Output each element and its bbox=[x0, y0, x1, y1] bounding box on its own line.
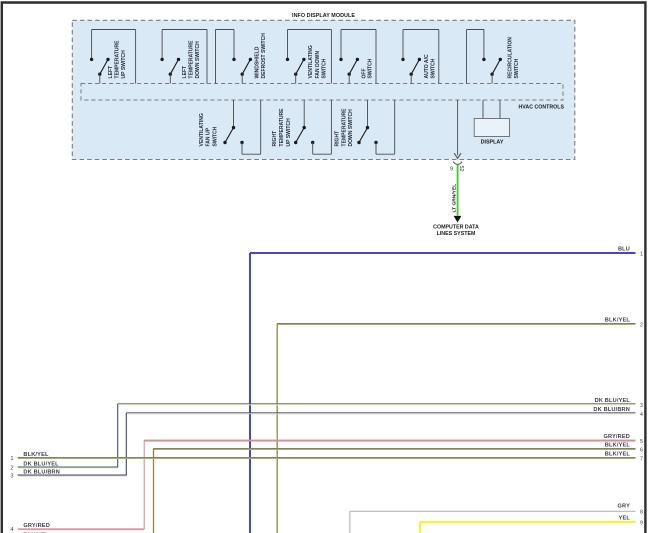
svg-text:BLK/YEL: BLK/YEL bbox=[605, 452, 631, 458]
label BLK/YEL (right, pin 7) bbox=[605, 452, 631, 458]
label: HVAC CONTROLS bbox=[518, 105, 564, 111]
svg-text:4: 4 bbox=[640, 412, 643, 418]
pin 4 (left) bbox=[10, 527, 13, 533]
switch: recirculation switch bbox=[467, 30, 521, 84]
switch: right temperature up switch bbox=[272, 100, 331, 154]
svg-text:YEL: YEL bbox=[619, 516, 631, 522]
hvac controls bus box bbox=[81, 84, 563, 101]
connector pin 9 symbol (half circle) bbox=[453, 162, 462, 165]
svg-text:TEMPERATURE: TEMPERATURE bbox=[279, 108, 285, 147]
switch: ventilating fan up switch bbox=[199, 100, 261, 154]
svg-text:HVAC CONTROLS: HVAC CONTROLS bbox=[518, 105, 564, 111]
svg-text:SWITCH: SWITCH bbox=[213, 126, 219, 146]
svg-text:BLU: BLU bbox=[618, 247, 630, 253]
svg-text:COMPUTER DATA: COMPUTER DATA bbox=[433, 225, 479, 231]
svg-text:TEMPERATURE: TEMPERATURE bbox=[189, 40, 195, 79]
pin 9 (right) bbox=[640, 520, 643, 526]
svg-text:9: 9 bbox=[450, 167, 453, 173]
svg-text:DK BLU/YEL: DK BLU/YEL bbox=[595, 398, 631, 404]
display unit D1 bbox=[474, 100, 509, 146]
svg-text:DISPLAY: DISPLAY bbox=[481, 140, 504, 146]
switch: right temperature down switch bbox=[335, 100, 395, 154]
svg-text:BLK/YEL: BLK/YEL bbox=[605, 443, 631, 449]
svg-text:DK BLU/BRN: DK BLU/BRN bbox=[23, 470, 60, 476]
switch: left temperature up switch bbox=[90, 30, 136, 84]
svg-text:RIGHT: RIGHT bbox=[335, 130, 341, 147]
svg-text:7: 7 bbox=[640, 457, 643, 463]
pin 2 (right) bbox=[640, 323, 643, 329]
info display module box bbox=[72, 20, 575, 159]
pin 9 number bbox=[450, 167, 453, 173]
pin 6 (right) bbox=[640, 448, 643, 454]
label DK BLU/BRN (right) bbox=[593, 407, 630, 413]
pin 3 (left) bbox=[10, 474, 13, 480]
label BLK/YEL bbox=[605, 318, 631, 324]
svg-text:BLK/YEL: BLK/YEL bbox=[605, 318, 631, 324]
svg-text:SWITCH: SWITCH bbox=[368, 58, 374, 78]
svg-text:5: 5 bbox=[640, 439, 643, 445]
switch: auto a/c switch bbox=[401, 30, 439, 84]
wire W4: DK BLU/BRN (pin 4 right, pin 3 left) bbox=[18, 413, 636, 476]
pin 4 (right) bbox=[640, 412, 643, 418]
label: COMPUTER DATA LINES SYSTEM bbox=[433, 225, 479, 238]
switch: windshield defrost switch bbox=[216, 30, 268, 84]
wire: LT GRN/YEL (green) down to computer data lines system bbox=[457, 165, 459, 216]
svg-text:UP SWITCH: UP SWITCH bbox=[121, 50, 127, 79]
svg-text:DOWN SWITCH: DOWN SWITCH bbox=[348, 109, 354, 147]
wire W9: YEL (pin 9) bbox=[420, 522, 636, 533]
svg-text:LT GRN/YEL: LT GRN/YEL bbox=[451, 184, 457, 213]
svg-text:FAN UP: FAN UP bbox=[206, 127, 212, 146]
svg-text:AUTO A/C: AUTO A/C bbox=[424, 54, 430, 78]
svg-text:FAN DOWN: FAN DOWN bbox=[315, 51, 321, 79]
svg-text:VENTILATING: VENTILATING bbox=[199, 113, 205, 146]
pin 1 (right) bbox=[640, 252, 643, 258]
svg-text:3: 3 bbox=[640, 403, 643, 409]
label DK BLU/YEL (left pin 2) bbox=[23, 461, 59, 467]
label YEL bbox=[619, 516, 631, 522]
switch: off switch bbox=[339, 30, 376, 84]
svg-text:LINES SYSTEM: LINES SYSTEM bbox=[437, 231, 476, 237]
svg-text:BLK/YEL: BLK/YEL bbox=[23, 452, 49, 458]
pin 5 (right) bbox=[640, 439, 643, 445]
label GRY/RED (left pin 4) bbox=[23, 523, 50, 529]
label: INFO DISPLAY MODULE bbox=[292, 13, 355, 19]
svg-text:2: 2 bbox=[10, 466, 13, 472]
svg-text:UP SWITCH: UP SWITCH bbox=[286, 118, 292, 147]
svg-text:9: 9 bbox=[640, 520, 643, 526]
svg-text:8: 8 bbox=[640, 510, 643, 516]
svg-text:52: 52 bbox=[458, 166, 464, 172]
wire W7: BLK/YEL (pin 7 right, pin 1 left) bbox=[18, 458, 636, 459]
label GRY bbox=[618, 504, 631, 510]
svg-text:DK BLU/BRN: DK BLU/BRN bbox=[593, 407, 630, 413]
internal output wire with arrow to module edge bbox=[454, 100, 461, 158]
svg-text:DOWN SWITCH: DOWN SWITCH bbox=[195, 41, 201, 79]
svg-text:WINDSHIELD: WINDSHIELD bbox=[254, 46, 260, 78]
wire label LT GRN/YEL (rotated) bbox=[451, 184, 457, 213]
svg-text:RIGHT: RIGHT bbox=[272, 130, 278, 147]
svg-text:SWITCH: SWITCH bbox=[322, 58, 328, 78]
wire W1: BLU (pin 1) bbox=[250, 253, 636, 533]
circuit number 52 (rotated) bbox=[458, 166, 464, 172]
switch: ventilating fan down switch bbox=[286, 30, 332, 84]
label BLK/YEL (right, pin 6) bbox=[605, 443, 631, 449]
wire W3: DK BLU/YEL (pin 3 right, pin 2 left) bbox=[18, 404, 636, 468]
label DK BLU/YEL (right) bbox=[595, 398, 631, 404]
svg-text:GRY: GRY bbox=[618, 504, 631, 510]
label BLU bbox=[618, 247, 630, 253]
svg-text:INFO DISPLAY MODULE: INFO DISPLAY MODULE bbox=[292, 13, 355, 19]
svg-text:1: 1 bbox=[10, 456, 13, 462]
svg-text:OFF: OFF bbox=[361, 68, 367, 78]
pin 2 (left) bbox=[10, 466, 13, 472]
svg-text:1: 1 bbox=[640, 252, 643, 258]
label DK BLU/BRN (left pin 3) bbox=[23, 470, 60, 476]
svg-text:TEMPERATURE: TEMPERATURE bbox=[114, 40, 120, 79]
svg-text:DK BLU/YEL: DK BLU/YEL bbox=[23, 461, 59, 467]
svg-text:6: 6 bbox=[640, 448, 643, 454]
svg-text:4: 4 bbox=[10, 527, 13, 533]
label BLK/YEL (left pin 1) bbox=[23, 452, 49, 458]
switch: left temperature down switch bbox=[160, 30, 207, 84]
pin 3 (right) bbox=[640, 403, 643, 409]
wire W8: GRY (pin 8) bbox=[350, 511, 636, 533]
svg-text:GRY/RED: GRY/RED bbox=[603, 434, 630, 440]
svg-text:VENTILATING: VENTILATING bbox=[308, 45, 314, 78]
svg-text:LEFT: LEFT bbox=[108, 65, 114, 79]
svg-text:GRY/RED: GRY/RED bbox=[23, 523, 50, 529]
pin 1 (left) bbox=[10, 456, 13, 462]
wire W2: BLK/YEL (pin 2) bbox=[277, 324, 635, 533]
svg-text:DEFROST SWITCH: DEFROST SWITCH bbox=[261, 33, 267, 79]
label GRY/RED (right) bbox=[603, 434, 630, 440]
svg-text:LEFT: LEFT bbox=[182, 65, 188, 79]
svg-text:2: 2 bbox=[640, 323, 643, 329]
svg-text:3: 3 bbox=[10, 474, 13, 480]
pin 8 (right) bbox=[640, 510, 643, 516]
svg-text:TEMPERATURE: TEMPERATURE bbox=[341, 108, 347, 147]
wire W5: GRY/RED (pin 5 right, pin 4 left) bbox=[18, 440, 636, 530]
wire W6: BLK/YEL (pin 6) bbox=[154, 449, 636, 533]
arrowhead to computer data lines system bbox=[454, 216, 462, 223]
svg-text:SWITCH: SWITCH bbox=[514, 58, 520, 78]
svg-text:RECIRCULATION: RECIRCULATION bbox=[508, 37, 514, 79]
pin 7 (right) bbox=[640, 457, 643, 463]
svg-text:SWITCH: SWITCH bbox=[431, 58, 437, 78]
